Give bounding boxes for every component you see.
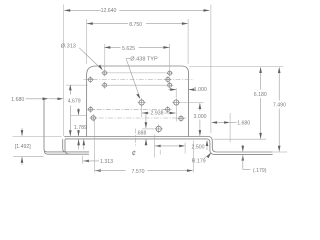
hole C2 xyxy=(90,114,97,121)
extension 7.570 right xyxy=(192,141,194,173)
hole C1 xyxy=(87,106,94,113)
lower left flange bottom line xyxy=(44,151,89,155)
svg-text:5.625: 5.625 xyxy=(122,46,135,52)
label Ø.313 leader xyxy=(61,44,103,71)
hole B1 xyxy=(166,70,173,77)
extension 2.938 right xyxy=(175,107,177,122)
hole A3 xyxy=(101,82,108,89)
svg-text:Ø.438 TYP: Ø.438 TYP xyxy=(130,57,158,63)
dimension 1.680 left xyxy=(11,97,63,103)
extension line 8.750 right xyxy=(187,19,189,64)
dimension (.179) xyxy=(242,145,267,174)
svg-text:.688: .688 xyxy=(136,130,146,136)
left riser edge (12.640 extension merging into lower flange) xyxy=(62,5,64,136)
svg-text:R.179: R.179 xyxy=(192,158,206,164)
extension tick below flange xyxy=(159,150,161,155)
left step inner line xyxy=(65,139,69,154)
extension line 8.750 left (face left edge up) xyxy=(86,19,88,64)
dimension 12.640 xyxy=(64,8,209,14)
extension 4.679 top xyxy=(66,84,88,86)
extension 7.490 bottom (lower flange line extended) xyxy=(273,151,288,153)
lower left flange top line xyxy=(44,98,89,152)
dimension 6.180 xyxy=(254,67,267,139)
dimension 1.680 right xyxy=(211,121,250,127)
dimension 1.789 xyxy=(74,108,87,150)
extension 6.180 bottom xyxy=(214,138,267,140)
dimension 8.750 xyxy=(87,22,188,28)
svg-text:7.490: 7.490 xyxy=(273,103,286,109)
svg-text:Ø.313: Ø.313 xyxy=(61,44,76,50)
extension 1.492 bottom xyxy=(13,156,43,158)
dimension 4.679 xyxy=(68,84,81,136)
hole C4 xyxy=(178,115,185,122)
centerline hole row 2a xyxy=(88,108,172,110)
extension 1.313 / 7.570 left xyxy=(94,119,96,173)
dimension 2.500 xyxy=(155,145,205,151)
hole H2 large xyxy=(172,99,180,107)
svg-text:1.680: 1.680 xyxy=(11,97,24,103)
dimension [1.492] xyxy=(15,128,31,165)
svg-text:(.179): (.179) xyxy=(253,168,267,174)
extension line 5.625 left hole column xyxy=(104,44,106,70)
svg-text:1.680: 1.680 xyxy=(237,121,250,127)
dimension 1.313 xyxy=(83,156,113,165)
extension 2.938 left xyxy=(141,107,143,118)
label Ø.438 TYP leader xyxy=(126,57,158,99)
left step outer line xyxy=(63,139,66,152)
extension line 5.625 right hole column xyxy=(169,44,171,70)
svg-text:1.789: 1.789 xyxy=(74,125,87,131)
centerline hole row 2b xyxy=(90,117,187,119)
hole F large xyxy=(155,125,163,133)
dimension 3.000 xyxy=(194,103,209,150)
extension 2.500 left xyxy=(154,135,156,158)
hole B2 xyxy=(165,76,172,83)
dimension .688 xyxy=(136,114,147,147)
svg-text:[1.492]: [1.492] xyxy=(15,144,31,150)
svg-text:12.640: 12.640 xyxy=(101,8,117,14)
svg-text:6.180: 6.180 xyxy=(254,92,267,98)
hole A2 xyxy=(87,76,94,83)
hole row link line bottom xyxy=(108,84,166,86)
svg-text:1.313: 1.313 xyxy=(100,159,113,165)
extension .688 hole row xyxy=(142,128,154,130)
right extension line of 12.640 xyxy=(210,5,212,134)
hole B3 xyxy=(166,82,173,89)
extension 3.000 top from hole H2 xyxy=(181,102,204,104)
svg-text:8.750: 8.750 xyxy=(129,22,142,28)
svg-text:2.938: 2.938 xyxy=(151,111,164,117)
hole C3 xyxy=(164,106,171,113)
centerline hole row 1 xyxy=(84,79,195,81)
face plate outline (rounded rectangle, front face of bracket) xyxy=(87,66,189,137)
extension 1.680 right xyxy=(229,113,231,142)
part vertical centerline xyxy=(135,129,137,148)
dimension 1.000 xyxy=(169,87,207,93)
svg-text:4.679: 4.679 xyxy=(68,99,81,105)
dimension 2.938 xyxy=(142,111,176,117)
extension 1.492 top xyxy=(13,136,62,138)
svg-text:2.500: 2.500 xyxy=(192,145,205,151)
extension top right (6.180 / 7.490) xyxy=(190,65,284,67)
extension 1.789 top xyxy=(71,114,87,116)
hole A1 xyxy=(101,70,108,77)
svg-text:3.000: 3.000 xyxy=(194,114,207,120)
upper flange inner surface line xyxy=(65,139,273,155)
dimension 7.490 xyxy=(273,67,286,152)
dimension 5.625 xyxy=(104,46,169,52)
dimension 7.570 xyxy=(95,169,193,175)
upper flange outer surface line (with right step down) xyxy=(64,137,272,153)
svg-text:1.000: 1.000 xyxy=(194,87,207,93)
hole row link line top xyxy=(108,72,166,74)
hole H1 large xyxy=(138,99,146,107)
extension 2.500 right xyxy=(184,143,186,154)
extension 1.000 left xyxy=(175,88,177,98)
dimension R.179 leader xyxy=(192,153,212,165)
svg-text:7.570: 7.570 xyxy=(132,169,145,175)
